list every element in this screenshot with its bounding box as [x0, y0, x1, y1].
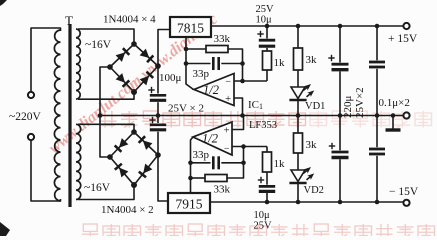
resistor R2 1k (top)	[263, 51, 272, 70]
wire primary top lead	[31, 28, 61, 92]
svg-text:3k: 3k	[306, 139, 318, 151]
node 220u rail	[338, 200, 343, 205]
wire 7815 output to +15V rail	[211, 25, 403, 27]
node 220u mid	[338, 113, 343, 118]
scan artifact bottom-left corner	[0, 222, 10, 236]
node 0V left	[98, 113, 103, 118]
node 10u on -15V rail	[265, 200, 270, 205]
node +15V rail to 10u	[265, 24, 270, 29]
wire 0V link between filter caps	[157, 102, 159, 123]
resistor R6 3k (bottom)	[294, 133, 303, 153]
wire 0.1u bottom to -15V rail	[376, 156, 378, 202]
svg-text:LF353: LF353	[249, 120, 277, 131]
wire 0V to 0.1u bottom	[376, 116, 378, 148]
diode D4 (bridge1 B-R)	[140, 76, 150, 86]
svg-text:~16V: ~16V	[85, 39, 112, 51]
node op-amp + inputs	[240, 113, 245, 118]
wire op-amp output down to 7915	[191, 137, 194, 193]
svg-text:−: −	[224, 144, 230, 155]
svg-text:220μ: 220μ	[342, 96, 354, 119]
wire 7915 output to -15V rail	[210, 201, 403, 203]
svg-text:1k: 1k	[274, 57, 286, 69]
node 33p left tee bottom	[188, 161, 193, 166]
svg-text:0.1μ×2: 0.1μ×2	[379, 97, 410, 109]
resistor R4 33k (bottom)	[205, 175, 227, 182]
capacitor C9 0.1u (top)	[376, 26, 378, 60]
svg-text:1k: 1k	[274, 158, 286, 170]
wire 7815 gnd pin down to op-amp output	[186, 37, 194, 90]
wire 33k right to feedback node	[228, 49, 243, 81]
wire 0.1u top to 0V rail	[376, 69, 378, 116]
svg-text:10μ: 10μ	[256, 15, 273, 26]
bridge rectifier 1 frame	[110, 44, 158, 92]
wire 10u bottom to -15V rail	[266, 193, 268, 202]
svg-text:25V×2: 25V×2	[354, 87, 366, 118]
svg-text:+: +	[224, 126, 230, 137]
transformer primary winding	[54, 30, 60, 201]
svg-text:7815: 7815	[177, 21, 204, 36]
wire 220u top to 0V rail	[339, 72, 341, 116]
wire 33p right to feedback node	[221, 63, 242, 65]
ground	[392, 116, 394, 129]
terminal 0V	[403, 112, 409, 118]
op-amp U1a (1/2 LF353)	[194, 74, 234, 106]
wire bridge1 left vertex to 0V rail	[100, 67, 110, 116]
node rail to 220u top	[338, 24, 343, 29]
watermark hanzi row middle	[100, 111, 306, 128]
resistor R3 3k (top)	[294, 48, 303, 70]
wire to R4 33k left (bottom)	[191, 177, 206, 179]
node 33p left tee	[184, 61, 189, 66]
terminal -15V	[403, 200, 409, 206]
svg-text:~16V: ~16V	[84, 182, 111, 194]
capacitor C2 100u 25V (bottom filter)	[150, 124, 166, 127]
wire 10u to 1k	[266, 48, 268, 51]
wire +unreg vertical (bridge1 R to 7815 in and cap)	[158, 30, 170, 94]
wire primary bottom lead	[31, 140, 61, 201]
capacitor C6 10u 25V (bottom)	[266, 172, 268, 185]
capacitor C10 0.1u (bottom)	[369, 148, 385, 151]
svg-text:+: +	[225, 94, 231, 105]
svg-text:10μ: 10μ	[254, 210, 271, 221]
svg-text:+ 15V: + 15V	[388, 33, 418, 45]
transformer T core	[68, 24, 71, 207]
terminal +15V	[403, 23, 409, 29]
diode D8 (bridge2 R-B)	[143, 164, 152, 174]
svg-text:1N4004 × 2: 1N4004 × 2	[101, 204, 154, 216]
wire to C4 33p left (bottom)	[191, 162, 211, 164]
wire 0V to 220u bottom	[339, 116, 341, 151]
wire bridge2 left vertex to 0V rail	[100, 116, 110, 158]
scan artifact top-left corner	[0, 0, 7, 6]
node 0.1u mid	[375, 113, 380, 118]
node 33k left tee	[184, 47, 189, 52]
capacitor C4 33p (bottom)	[212, 156, 215, 169]
watermark hanzi row bottom	[82, 224, 435, 240]
transformer secondary winding 2	[76, 124, 81, 199]
wire inverting input (bottom)	[232, 146, 267, 148]
wire secondary1 bottom tap to bridge1	[78, 92, 134, 99]
watermark url diagonals	[46, 11, 221, 157]
svg-text:100μ: 100μ	[159, 72, 182, 84]
wire 33p right to feedback node bottom	[221, 162, 243, 164]
wire 220u bottom to -15V rail	[339, 159, 341, 202]
svg-text:−: −	[225, 77, 231, 88]
diode D3 (bridge1 L-B)	[116, 73, 126, 83]
svg-text:3k: 3k	[306, 54, 318, 66]
capacitor C3 33p (top)	[212, 57, 215, 70]
wire 3k to VD1	[297, 70, 299, 87]
resistor R1 33k (top)	[206, 46, 228, 53]
wire 3k to VD2	[297, 153, 299, 170]
svg-text:1/2: 1/2	[202, 132, 218, 146]
svg-text:33p: 33p	[193, 68, 210, 80]
transformer secondary winding 1	[76, 29, 80, 99]
wire 1k bottom to inverting node	[266, 70, 268, 81]
svg-text:VD2: VD2	[304, 185, 324, 196]
wire rail to 3k	[297, 26, 299, 48]
svg-text:25V: 25V	[256, 4, 275, 15]
op-amp U1b (1/2 LF353)	[193, 122, 232, 155]
node rail to 0.1u top	[375, 24, 380, 29]
node caps midpoint	[156, 113, 161, 118]
node 0.1u rail	[375, 200, 380, 205]
node inverting input junction	[240, 79, 245, 84]
capacitor C1 100u 25V (top filter)	[150, 94, 166, 97]
diode D6 (bridge2 R-T)	[143, 140, 153, 150]
capacitor C5 10u 25V (top)	[266, 26, 268, 39]
diode D7 (bridge2 B-L)	[119, 168, 128, 178]
diode D1 (bridge1 L-T)	[116, 52, 126, 62]
regulator U3 7915	[168, 193, 210, 213]
node feedback tee top	[240, 61, 245, 66]
svg-text:7915: 7915	[176, 197, 203, 212]
svg-text:1/2: 1/2	[203, 83, 219, 97]
capacitor C8 220u 25V (bottom)	[332, 151, 349, 154]
node bridge2 vertices	[131, 129, 137, 135]
node VD chains	[296, 113, 301, 118]
wire non-inverting input to 0V rail	[234, 98, 243, 116]
wire VD2 to -15V rail	[297, 184, 299, 203]
node rail to 3k top	[296, 24, 301, 29]
wire inverting input (top op-amp)	[234, 80, 267, 82]
svg-text:33k: 33k	[214, 33, 231, 45]
LED VD2	[291, 170, 305, 182]
diode D2 (bridge1 T-R)	[140, 49, 150, 58]
svg-text:1N4004 × 4: 1N4004 × 4	[103, 14, 156, 26]
node bridge1 vertices	[131, 41, 137, 47]
svg-text:25V × 2: 25V × 2	[168, 103, 204, 115]
svg-text:VD1: VD1	[305, 101, 325, 112]
regulator U2 7815	[170, 17, 211, 37]
wire 0V rail to 3k bottom	[297, 116, 299, 134]
wire inverting to 1k top (bottom half)	[266, 147, 268, 153]
svg-text:33k: 33k	[214, 184, 231, 196]
node 33k left tee bottom	[188, 176, 193, 181]
LED VD1	[291, 87, 305, 99]
wire -unreg vertical (cap to bridge2 R to 7915 in)	[158, 132, 168, 201]
wire secondary2 bottom tap to bridge2	[78, 185, 134, 200]
bridge rectifier 2 frame	[110, 132, 158, 185]
wire 33k right to feedback node bottom	[227, 147, 244, 179]
resistor R5 1k (bottom)	[263, 152, 272, 172]
node inverting junction bottom	[241, 144, 246, 149]
wire secondary1 top tap to bridge1	[78, 29, 134, 44]
terminal primary top	[28, 92, 34, 98]
node VD2 rail	[296, 200, 301, 205]
wire VD1 to 0V rail	[297, 101, 299, 116]
wire 0V mid rail	[100, 115, 403, 117]
diode D5 (bridge2 T-L)	[119, 138, 128, 148]
svg-text:33p: 33p	[193, 149, 210, 161]
terminal primary bottom	[28, 134, 34, 140]
node feedback tee bottom	[241, 161, 246, 166]
svg-text:25V: 25V	[254, 221, 273, 232]
wire to R1 33k left	[186, 48, 206, 50]
svg-text:~220V: ~220V	[9, 111, 41, 123]
capacitor C7 220u 25V (top)	[339, 26, 341, 63]
wire to C3 33p left	[186, 63, 211, 65]
wire non-inverting input (bottom) to 0V rail	[232, 116, 244, 130]
wire secondary2 top tap to bridge2	[78, 124, 134, 132]
svg-text:− 15V: − 15V	[389, 186, 419, 198]
svg-text:T: T	[65, 13, 73, 28]
